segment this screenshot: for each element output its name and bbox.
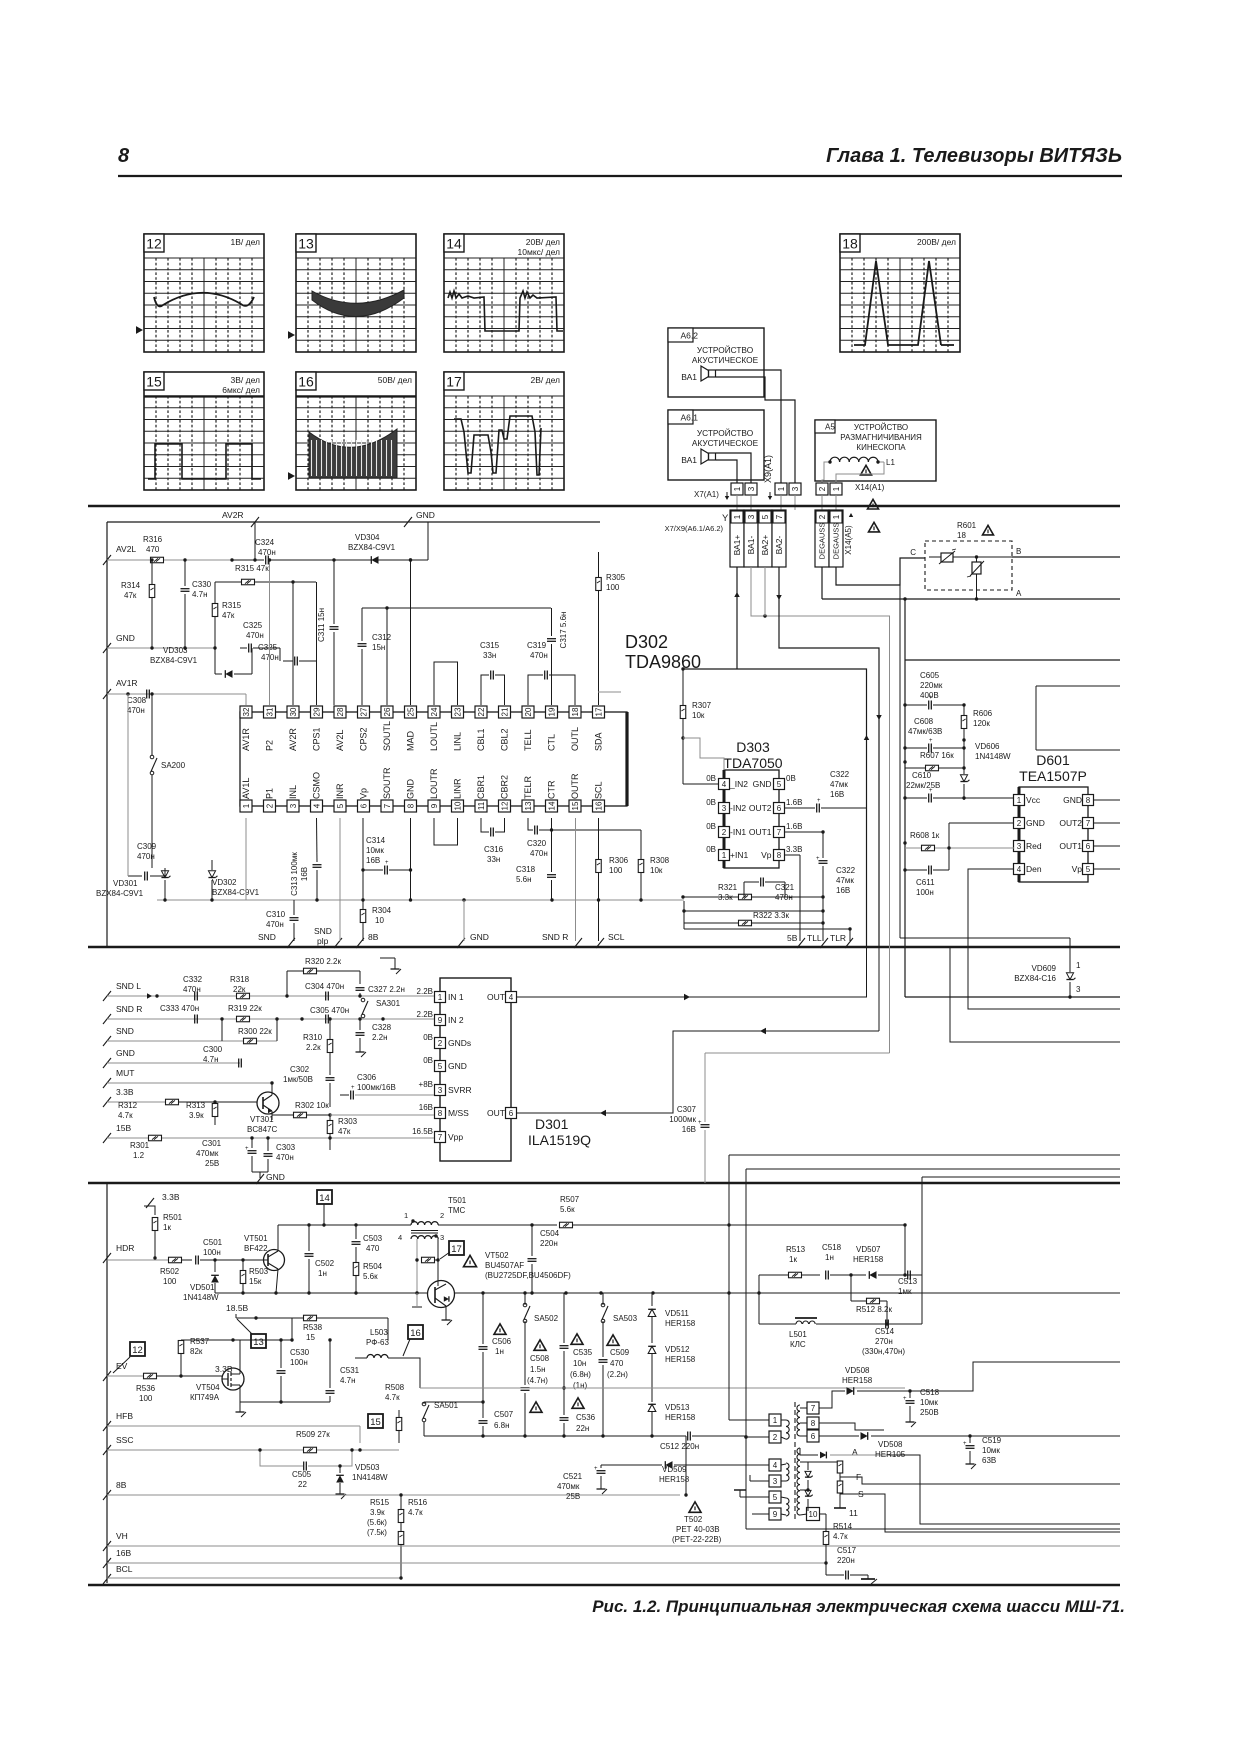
- svg-text:1мк/50В: 1мк/50В: [283, 1075, 313, 1084]
- svg-text:21: 21: [500, 707, 509, 716]
- svg-text:АКУСТИЧЕСКОЕ: АКУСТИЧЕСКОЕ: [692, 438, 759, 448]
- svg-text:3: 3: [1017, 842, 1022, 851]
- pin label CPS1 D302: [312, 727, 322, 751]
- svg-text:R322 3.3к: R322 3.3к: [753, 911, 789, 920]
- diode VD303: [150, 646, 252, 678]
- IC D301 label: [528, 1116, 591, 1148]
- node 8B mid: [356, 932, 379, 948]
- svg-text:0В: 0В: [423, 1033, 433, 1042]
- pin 5 D601: [1072, 864, 1120, 875]
- svg-text:2: 2: [773, 1433, 778, 1442]
- svg-text:47к: 47к: [338, 1127, 351, 1136]
- resistor R307: [680, 667, 718, 784]
- svg-text:R315 47к: R315 47к: [235, 564, 269, 573]
- svg-text:C611: C611: [916, 878, 935, 887]
- pin label AV2R D302: [288, 728, 298, 751]
- svg-text:5.6к: 5.6к: [363, 1272, 378, 1281]
- svg-text:C521: C521: [563, 1472, 583, 1481]
- wire v746: [745, 1169, 747, 1183]
- svg-text:AV2L: AV2L: [116, 544, 136, 554]
- wire base rail: [215, 1292, 427, 1294]
- svg-text:5: 5: [761, 514, 770, 519]
- svg-text:220н: 220н: [837, 1556, 855, 1565]
- svg-text:R315: R315: [222, 601, 242, 610]
- svg-text:C325: C325: [243, 621, 263, 630]
- svg-text:20В/ дел: 20В/ дел: [526, 237, 560, 247]
- capacitor C503: [352, 1225, 383, 1262]
- svg-text:C318: C318: [516, 865, 536, 874]
- svg-text:BF422: BF422: [244, 1244, 268, 1253]
- wire 16B: [107, 1562, 826, 1564]
- wire c307 top: [705, 1052, 890, 1054]
- wire T501 pin2: [438, 1222, 557, 1225]
- svg-text:1.6В: 1.6В: [786, 822, 802, 831]
- capacitor C327: [356, 985, 405, 996]
- svg-text:7: 7: [383, 803, 392, 808]
- svg-text:26: 26: [383, 707, 392, 716]
- pin 1 D301: [417, 987, 464, 1003]
- svg-text:12: 12: [132, 1345, 143, 1356]
- svg-text:CTL: CTL: [547, 734, 557, 751]
- pin 20 D302: [522, 706, 534, 718]
- pin 2 D302: [264, 800, 276, 812]
- svg-text:DEGAUSS: DEGAUSS: [832, 523, 841, 560]
- svg-text:0В: 0В: [706, 798, 716, 807]
- svg-text:T501: T501: [448, 1196, 467, 1205]
- wire AV2L: [107, 559, 232, 561]
- svg-text:GND: GND: [266, 1172, 285, 1182]
- zener sec2: [800, 1488, 813, 1511]
- resistor R316: [143, 535, 187, 563]
- svg-text:5: 5: [336, 803, 345, 808]
- svg-text:1: 1: [777, 486, 786, 491]
- pin 26 D302: [381, 706, 393, 718]
- svg-text:SND: SND: [314, 926, 332, 936]
- svg-text:1.6В: 1.6В: [786, 798, 802, 807]
- inductor L503: [355, 1312, 400, 1358]
- svg-text:VD303: VD303: [163, 646, 188, 655]
- svg-text:2: 2: [1017, 819, 1022, 828]
- svg-text:B: B: [1016, 547, 1021, 556]
- pin 5 D303: [753, 774, 796, 790]
- svg-text:1: 1: [832, 486, 841, 491]
- svg-text:6: 6: [777, 804, 782, 813]
- svg-text:C605: C605: [920, 671, 940, 680]
- svg-text:C319: C319: [527, 641, 547, 650]
- wire pin25 up: [409, 558, 412, 705]
- svg-text:R319 22к: R319 22к: [228, 1004, 262, 1013]
- capacitor C321: [744, 878, 795, 903]
- pin 5 D302: [334, 800, 346, 812]
- node BCL entry: [103, 1564, 133, 1584]
- svg-text:C: C: [910, 548, 916, 557]
- svg-text:(5.6к): (5.6к): [367, 1518, 387, 1527]
- pin 3 D302: [287, 800, 299, 812]
- node 3.3V power: [144, 1192, 180, 1215]
- svg-text:ВА1+: ВА1+: [732, 535, 742, 556]
- pin label P2 D302: [265, 740, 275, 751]
- svg-text:2.2В: 2.2В: [417, 987, 433, 996]
- svg-text:47к: 47к: [222, 611, 235, 620]
- svg-text:+8В: +8В: [419, 1080, 433, 1089]
- svg-text:HDR: HDR: [116, 1243, 134, 1253]
- svg-text:VT502: VT502: [485, 1251, 509, 1260]
- svg-text:TELL: TELL: [523, 729, 533, 751]
- op-amp U D302 body: [240, 712, 627, 806]
- svg-text:2: 2: [265, 803, 274, 808]
- svg-text:1N4148W: 1N4148W: [183, 1293, 219, 1302]
- diode VD304: [348, 533, 428, 564]
- svg-text:VT301: VT301: [250, 1115, 274, 1124]
- pin label SDA D302: [594, 732, 604, 751]
- svg-text:2: 2: [818, 486, 827, 491]
- resistor R607: [905, 751, 966, 771]
- spark gap SA503: [601, 1293, 637, 1357]
- svg-text:C320: C320: [527, 839, 547, 848]
- svg-text:470н: 470н: [137, 852, 155, 861]
- box 13 link: [251, 1334, 266, 1348]
- svg-text:УСТРОЙСТВО: УСТРОЙСТВО: [697, 427, 754, 438]
- svg-text:1N4148W: 1N4148W: [352, 1473, 388, 1482]
- svg-text:(330н,470н): (330н,470н): [862, 1347, 905, 1356]
- svg-text:18: 18: [571, 707, 580, 716]
- wire VH: [107, 1545, 1120, 1547]
- svg-text:50В/ дел: 50В/ дел: [378, 375, 412, 385]
- zener sec1: [805, 1462, 813, 1488]
- svg-text:R300 22к: R300 22к: [238, 1027, 272, 1036]
- box 15 link: [368, 1414, 383, 1428]
- svg-text:470н: 470н: [258, 548, 276, 557]
- wire D601 gnd: [949, 823, 1014, 848]
- wire bottom power: [905, 996, 1120, 998]
- svg-text:CBL1: CBL1: [476, 728, 486, 751]
- svg-text:C509: C509: [610, 1348, 630, 1357]
- transistor VT501: [244, 1225, 285, 1295]
- capacitor C325a: [240, 621, 280, 653]
- node TLL: [807, 933, 828, 948]
- svg-text:R537: R537: [190, 1337, 210, 1346]
- svg-text:C306: C306: [357, 1073, 377, 1082]
- transistor VT504: [190, 1340, 244, 1402]
- pin 1 D601: [1014, 795, 1041, 806]
- pin 2 D301: [423, 1033, 471, 1049]
- svg-text:(6.8н): (6.8н): [570, 1370, 591, 1379]
- svg-text:А6.2: А6.2: [681, 330, 699, 340]
- pin 4 D601: [1014, 864, 1042, 875]
- svg-text:C300: C300: [203, 1045, 223, 1054]
- svg-text:TLR: TLR: [830, 933, 846, 943]
- svg-text:47мк: 47мк: [836, 876, 854, 885]
- capacitor C508: [521, 1340, 550, 1436]
- svg-text:R515: R515: [370, 1498, 390, 1507]
- pin 9 D302: [428, 800, 440, 812]
- resistor R513: [757, 1245, 820, 1324]
- wire pin5 stub: [734, 1490, 769, 1497]
- svg-text:1: 1: [404, 1211, 408, 1220]
- svg-text:-IN2: -IN2: [730, 803, 746, 813]
- pin 18 D302: [569, 706, 581, 718]
- svg-text:C535: C535: [573, 1348, 593, 1357]
- svg-text:R509 27к: R509 27к: [296, 1430, 330, 1439]
- wire AV1R: [107, 694, 246, 705]
- wire rail729 down: [729, 1183, 769, 1420]
- label X9(A1): [763, 455, 773, 500]
- resistor R306: [596, 818, 629, 900]
- pin label CTL D302: [547, 734, 557, 751]
- svg-text:GND: GND: [116, 1048, 135, 1058]
- svg-text:SND R: SND R: [542, 932, 568, 942]
- svg-text:33н: 33н: [487, 855, 500, 864]
- svg-text:0В: 0В: [706, 774, 716, 783]
- wire TLR link: [684, 927, 852, 941]
- svg-text:6: 6: [1086, 842, 1091, 851]
- svg-text:VD609: VD609: [1032, 964, 1057, 973]
- svg-text:C316: C316: [484, 845, 504, 854]
- svg-text:R306: R306: [609, 856, 629, 865]
- svg-text:100: 100: [609, 866, 623, 875]
- svg-text:А5: А5: [825, 423, 835, 432]
- pin label SOUTL D302: [382, 721, 392, 751]
- svg-text:10мкс/ дел: 10мкс/ дел: [518, 247, 560, 257]
- svg-text:7: 7: [777, 828, 782, 837]
- svg-text:OUT2: OUT2: [749, 803, 772, 813]
- wire v729: [728, 1155, 730, 1183]
- capacitor C505: [292, 1462, 312, 1490]
- resistor R304: [360, 870, 391, 941]
- svg-text:12: 12: [500, 801, 509, 810]
- node SND R: [542, 818, 582, 948]
- svg-text:9: 9: [438, 1016, 443, 1025]
- capacitor C322a: [785, 770, 866, 813]
- resistor R538: [292, 1315, 388, 1342]
- svg-text:HER158: HER158: [853, 1255, 884, 1264]
- svg-text:CBR1: CBR1: [476, 775, 486, 799]
- svg-text:18: 18: [957, 531, 966, 540]
- pin 30 D302: [287, 706, 299, 718]
- svg-text:14: 14: [446, 236, 462, 252]
- svg-text:L503: L503: [370, 1328, 388, 1337]
- spark gap SA502: [523, 1293, 558, 1385]
- svg-text:TDA7050: TDA7050: [723, 755, 782, 771]
- resistor sec F: [837, 1461, 861, 1482]
- node AV2R top: [222, 510, 259, 527]
- svg-text:C512 220н: C512 220н: [660, 1442, 699, 1451]
- svg-text:25: 25: [406, 707, 415, 716]
- svg-text:82к: 82к: [190, 1347, 203, 1356]
- ground sym C327: [380, 958, 401, 974]
- svg-text:12: 12: [146, 236, 162, 252]
- capacitor C325b: [258, 582, 317, 666]
- switch SA301: [361, 996, 400, 1018]
- svg-text:_IN2: _IN2: [729, 779, 748, 789]
- oscillogram 18: [840, 234, 960, 352]
- svg-text:C327 2.2н: C327 2.2н: [368, 985, 405, 994]
- svg-text:18.5В: 18.5В: [226, 1303, 249, 1313]
- svg-text:2.2В: 2.2В: [417, 1010, 433, 1019]
- svg-text:1.5н: 1.5н: [530, 1365, 546, 1374]
- resistor R303: [327, 1115, 357, 1150]
- wire degauss A: [822, 597, 1120, 600]
- svg-text:22н: 22н: [576, 1424, 589, 1433]
- svg-text:R538: R538: [303, 1323, 323, 1332]
- svg-text:470н: 470н: [183, 985, 201, 994]
- svg-text:8: 8: [118, 145, 130, 167]
- node 16В entry: [103, 1548, 131, 1568]
- svg-text:1000мк: 1000мк: [669, 1115, 696, 1124]
- wire Den loop: [968, 869, 1120, 1009]
- svg-text:11: 11: [477, 801, 486, 810]
- wire A out: [890, 1455, 1120, 1524]
- svg-text:10н: 10н: [573, 1359, 586, 1368]
- capacitor C306: [340, 1073, 434, 1100]
- svg-text:16В: 16В: [836, 886, 850, 895]
- svg-text:CPS1: CPS1: [312, 727, 322, 751]
- pin 32 D302: [240, 706, 252, 718]
- svg-text:C506: C506: [492, 1337, 512, 1346]
- wire gnd loop: [244, 1041, 277, 1063]
- resistor R308: [552, 830, 670, 900]
- svg-text:R601: R601: [957, 521, 977, 530]
- svg-text:10: 10: [375, 916, 384, 925]
- svg-text:C508: C508: [530, 1354, 550, 1363]
- wire MSS: [330, 1114, 434, 1116]
- svg-text:AV1R: AV1R: [116, 678, 138, 688]
- capacitor C610: [905, 771, 1014, 803]
- svg-text:100: 100: [163, 1277, 177, 1286]
- svg-text:4.7к: 4.7к: [833, 1532, 848, 1541]
- svg-text:SOUTL: SOUTL: [382, 721, 392, 751]
- svg-text:10мк: 10мк: [982, 1446, 1000, 1455]
- wire 15V: [107, 1136, 434, 1139]
- resistor R321: [681, 883, 824, 902]
- svg-text:C304 470н: C304 470н: [305, 982, 344, 991]
- svg-text:5.6к: 5.6к: [560, 1205, 575, 1214]
- svg-text:VD508: VD508: [845, 1366, 870, 1375]
- transformer T502 low windings: [769, 1459, 789, 1520]
- svg-text:АКУСТИЧЕСКОЕ: АКУСТИЧЕСКОЕ: [692, 355, 759, 365]
- svg-text:15: 15: [370, 1417, 381, 1428]
- svg-text:3: 3: [438, 1086, 443, 1095]
- svg-text:VD606: VD606: [975, 742, 1000, 751]
- svg-text:BZX84-C9V1: BZX84-C9V1: [348, 543, 396, 552]
- svg-text:0В: 0В: [706, 845, 716, 854]
- capacitor C310: [266, 900, 299, 941]
- svg-text:C317 5.6н: C317 5.6н: [559, 612, 568, 649]
- wire SSC: [107, 1448, 399, 1451]
- svg-text:РФ-63: РФ-63: [366, 1338, 389, 1347]
- svg-text:13: 13: [298, 236, 314, 252]
- resistor R502: [160, 1257, 192, 1286]
- svg-text:Vp: Vp: [1072, 864, 1083, 874]
- pin label INL D302: [288, 785, 298, 799]
- capacitor C308: [107, 690, 232, 716]
- resistor R320: [285, 957, 360, 998]
- svg-text:D303: D303: [736, 739, 770, 755]
- capacitor C518s: [822, 1243, 851, 1280]
- wire Vcc: [963, 798, 965, 800]
- svg-text:270н: 270н: [875, 1337, 893, 1346]
- wire BCL: [107, 1576, 403, 1579]
- svg-text:C518: C518: [822, 1243, 842, 1252]
- svg-text:1: 1: [773, 1416, 778, 1425]
- svg-text:HER105: HER105: [875, 1450, 906, 1459]
- wire vt501 collector rail: [278, 1223, 411, 1226]
- svg-text:GNDs: GNDs: [448, 1038, 471, 1048]
- svg-text:R307: R307: [692, 701, 712, 710]
- capacitor C333: [160, 1004, 199, 1024]
- svg-text:X7/X9(А6.1/А6.2): X7/X9(А6.1/А6.2): [665, 524, 724, 533]
- wire HFB: [107, 1426, 360, 1443]
- box 17 link: [440, 1241, 464, 1259]
- wire pin1 down: [245, 818, 247, 900]
- pin label Vp D302: [359, 788, 369, 799]
- diode VD507: [849, 1223, 922, 1279]
- resistor R537: [178, 1337, 293, 1378]
- pin 4 D302: [311, 800, 323, 812]
- svg-text:1В/ дел: 1В/ дел: [231, 237, 261, 247]
- svg-text:8: 8: [811, 1419, 816, 1428]
- svg-text:200В/ дел: 200В/ дел: [917, 237, 956, 247]
- node AV2L: [103, 544, 136, 565]
- svg-text:27: 27: [359, 707, 368, 716]
- resistor R313: [186, 1101, 257, 1125]
- svg-text:10к: 10к: [692, 711, 705, 720]
- pin 3 D303: [706, 798, 746, 814]
- svg-text:AV1L: AV1L: [241, 778, 251, 799]
- page number 8: [118, 145, 130, 167]
- svg-text:C519: C519: [982, 1436, 1002, 1445]
- svg-text:BZX84-C9V1: BZX84-C9V1: [150, 656, 198, 665]
- svg-text:BZX84-C9V1: BZX84-C9V1: [96, 889, 144, 898]
- svg-text:C514: C514: [875, 1327, 895, 1336]
- svg-text:R503: R503: [249, 1267, 269, 1276]
- svg-text:Red: Red: [1026, 841, 1042, 851]
- svg-text:OUT2: OUT2: [1059, 818, 1082, 828]
- svg-text:VD501: VD501: [190, 1283, 215, 1292]
- node 8В entry: [103, 1480, 127, 1500]
- svg-text:1: 1: [1076, 961, 1081, 970]
- svg-text:BZX84-C9V1: BZX84-C9V1: [212, 888, 260, 897]
- svg-text:SND R: SND R: [116, 1004, 142, 1014]
- svg-text:R504: R504: [363, 1262, 383, 1271]
- svg-text:7: 7: [775, 514, 784, 519]
- svg-text:5.6н: 5.6н: [516, 875, 532, 884]
- chapter title: [826, 145, 1122, 167]
- svg-text:1: 1: [832, 514, 841, 519]
- svg-text:1: 1: [242, 803, 251, 808]
- svg-text:AV2L: AV2L: [335, 730, 345, 751]
- svg-text:SND L: SND L: [116, 981, 141, 991]
- wire pin30 up: [292, 582, 294, 705]
- svg-text:13: 13: [253, 1337, 264, 1348]
- svg-text:X7(A1): X7(A1): [694, 490, 719, 499]
- connector X14(A1) pin 2: [816, 483, 828, 495]
- pin 7 D302: [381, 800, 393, 812]
- svg-text:16В: 16В: [116, 1548, 131, 1558]
- oscillogram 14: [444, 234, 564, 352]
- svg-text:LINR: LINR: [453, 778, 463, 799]
- diode VD501: [183, 1260, 219, 1302]
- wire pin26 up: [386, 608, 388, 705]
- svg-text:C328: C328: [372, 1023, 392, 1032]
- svg-text:2: 2: [818, 514, 827, 519]
- pin label SCL D302: [594, 781, 604, 799]
- wire VT502 collector rail: [455, 1291, 1120, 1294]
- svg-text:-IN1: -IN1: [730, 827, 746, 837]
- svg-text:4: 4: [773, 1461, 778, 1470]
- svg-text:C315: C315: [480, 641, 500, 650]
- pin label CBR2 D302: [500, 775, 510, 799]
